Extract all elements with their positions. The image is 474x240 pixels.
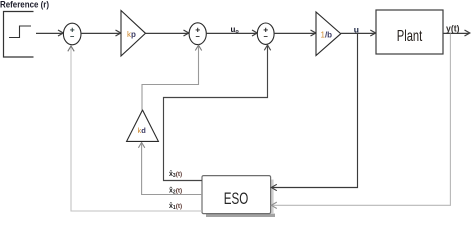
svg-text:ESO: ESO bbox=[224, 190, 249, 208]
wire sum3 to 1/b bbox=[274, 32, 316, 34]
svg-text:Reference (r): Reference (r) bbox=[0, 0, 49, 11]
wire sum2 to sum3 bbox=[206, 32, 256, 34]
step waveform bbox=[9, 26, 31, 38]
svg-text:x̂1(t): x̂1(t) bbox=[169, 202, 182, 211]
wire 1/b to Plant bbox=[341, 32, 376, 34]
gain 1/b bbox=[316, 12, 341, 56]
svg-text:1/b: 1/b bbox=[321, 31, 333, 40]
block ESO bbox=[202, 176, 271, 214]
svg-text:x̂3(t): x̂3(t) bbox=[169, 170, 182, 179]
wire y feedback to ESO bbox=[272, 34, 451, 206]
wire kp to sum2 bbox=[146, 32, 189, 34]
summing junction S1 bbox=[63, 23, 81, 45]
wire x1hat from ESO to sum1 bbox=[71, 47, 202, 212]
wire step to sum1 bbox=[36, 32, 63, 34]
ESO shadow bbox=[206, 214, 275, 217]
svg-text:−: − bbox=[196, 32, 201, 41]
wire Plant output y(t) bbox=[443, 32, 469, 34]
summing junction S3 bbox=[257, 23, 274, 44]
step source block bbox=[4, 12, 34, 58]
svg-text:u: u bbox=[354, 24, 359, 34]
svg-text:−: − bbox=[264, 32, 269, 41]
gain kd bbox=[127, 110, 159, 141]
svg-text:Plant: Plant bbox=[397, 28, 423, 45]
svg-text:uo: uo bbox=[231, 25, 240, 35]
svg-text:kp: kp bbox=[127, 30, 136, 39]
gain kp bbox=[121, 11, 146, 57]
summing junction S2 bbox=[189, 23, 206, 45]
svg-text:y(t): y(t) bbox=[446, 24, 460, 34]
block Plant bbox=[376, 10, 443, 54]
svg-text:−: − bbox=[70, 32, 75, 41]
wire x2hat from ESO to kd bbox=[142, 143, 202, 195]
wire kd to sum2 bbox=[142, 46, 199, 110]
wire x3hat from ESO to sum3 bbox=[164, 46, 268, 181]
wire u feedback to ESO bbox=[272, 33, 358, 188]
svg-text:kd: kd bbox=[138, 126, 147, 135]
wire sum1 to kp bbox=[81, 32, 121, 34]
svg-text:x̂2(t): x̂2(t) bbox=[169, 186, 182, 195]
